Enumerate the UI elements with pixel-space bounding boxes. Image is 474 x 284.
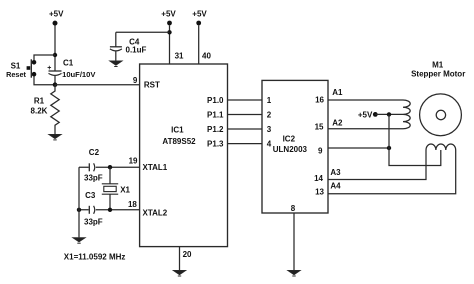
wire P1.0 (228, 99, 263, 101)
svg-text:14: 14 (314, 174, 323, 183)
svg-text:R1: R1 (34, 97, 45, 106)
svg-text:3: 3 (267, 125, 272, 134)
svg-text:13: 13 (315, 187, 324, 196)
IC1 AT89S52 microcontroller box (140, 64, 228, 247)
node XTAL2 junction crystal (108, 208, 112, 212)
resistor R1 (51, 85, 59, 134)
svg-text:9: 9 (133, 76, 138, 85)
wire A4 (328, 150, 456, 194)
svg-text:P1.2: P1.2 (207, 125, 224, 134)
inductor winding A1-A2 (403, 100, 410, 129)
svg-text:9: 9 (318, 147, 323, 156)
ground (IC1 pin 20) (173, 270, 186, 276)
node XTAL2 junction rail (77, 208, 81, 212)
svg-text:33pF: 33pF (84, 174, 103, 183)
wire IC1 pin 20 to ground (179, 247, 181, 270)
wire +5V to winding centre tap (375, 113, 403, 115)
svg-text:C3: C3 (85, 191, 96, 200)
svg-text:1: 1 (267, 96, 272, 105)
wire P1.2 (228, 128, 263, 130)
capacitor C2 (89, 163, 94, 171)
wire C4 to +5V rail (116, 31, 170, 33)
capacitor C3 (89, 206, 94, 214)
svg-text:8: 8 (291, 204, 296, 213)
capacitor C1 (49, 71, 62, 85)
svg-text:A3: A3 (330, 168, 341, 177)
svg-text:M1: M1 (432, 61, 444, 70)
svg-text:+5V: +5V (192, 9, 207, 18)
svg-text:A4: A4 (330, 181, 341, 190)
svg-text:+: + (47, 65, 51, 72)
node pin 9 junction (387, 146, 391, 150)
ground (crystal rail) (73, 238, 86, 244)
svg-text:+5V: +5V (49, 9, 64, 18)
svg-text:IC2: IC2 (283, 135, 296, 144)
svg-text:RST: RST (144, 81, 160, 90)
wire A3 (328, 150, 426, 180)
+5V supply pin 31 (167, 21, 172, 64)
svg-text:X1=11.0592 MHz: X1=11.0592 MHz (64, 253, 126, 262)
node C4 junction (167, 30, 171, 34)
crystal X1 (102, 167, 118, 210)
svg-text:C2: C2 (89, 148, 100, 157)
svg-text:AT89S52: AT89S52 (162, 137, 196, 146)
+5V supply pin 40 (196, 21, 201, 64)
svg-text:20: 20 (183, 250, 192, 259)
wire crystal ground rail (78, 167, 80, 237)
svg-text:2: 2 (267, 110, 272, 119)
svg-text:18: 18 (128, 200, 137, 209)
svg-text:X1: X1 (120, 185, 130, 194)
svg-text:Reset: Reset (6, 70, 26, 79)
wire P1.3 (228, 143, 263, 145)
svg-text:P1.3: P1.3 (207, 140, 224, 149)
svg-text:IC1: IC1 (171, 126, 184, 135)
svg-text:31: 31 (175, 52, 184, 61)
IC2 ULN2003 box (262, 80, 328, 213)
inductor winding A3-A4 (426, 144, 456, 150)
svg-text:16: 16 (315, 96, 324, 105)
wire XTAL1 (79, 166, 140, 168)
svg-text:8.2K: 8.2K (31, 107, 48, 116)
ground (below C4) (109, 61, 122, 67)
svg-text:0.1uF: 0.1uF (126, 46, 147, 55)
ground (below R1) (49, 134, 62, 140)
node reset top rail (34, 53, 57, 60)
wire XTAL2 (79, 209, 140, 211)
svg-text:ULN2003: ULN2003 (273, 145, 308, 154)
svg-text:A1: A1 (332, 88, 343, 97)
svg-text:A2: A2 (332, 118, 343, 127)
svg-text:40: 40 (202, 52, 211, 61)
svg-text:15: 15 (315, 122, 324, 131)
wire common routing to lower winding tap (389, 114, 441, 165)
svg-text:+5V: +5V (161, 9, 176, 18)
wire P1.1 (228, 114, 263, 116)
svg-text:Stepper Motor: Stepper Motor (411, 69, 465, 78)
ground (IC2 pin 8) (288, 270, 301, 276)
wire switch bottom (34, 77, 55, 85)
node motor +5V junction (387, 112, 391, 116)
svg-text:10uF/10V: 10uF/10V (62, 70, 96, 79)
wire A1 (328, 99, 403, 101)
capacitor C4 (110, 32, 122, 60)
motor M1 body (420, 94, 462, 136)
wire RST to IC1 pin 9 (55, 84, 140, 86)
svg-text:33pF: 33pF (84, 218, 103, 227)
svg-text:19: 19 (129, 156, 138, 165)
wire IC2 pin 8 to ground (293, 213, 295, 270)
svg-text:+5V: +5V (358, 110, 373, 119)
svg-text:4: 4 (267, 140, 272, 149)
svg-text:C1: C1 (63, 59, 74, 68)
switch S1 (27, 59, 37, 77)
node XTAL1 junction (108, 165, 112, 169)
svg-text:P1.1: P1.1 (207, 110, 224, 119)
node RST junction (53, 82, 58, 87)
+5V supply motor common (373, 112, 378, 117)
wire IC2 pin 9 common (328, 147, 389, 149)
+5V supply reset rail (53, 21, 58, 71)
svg-text:P1.0: P1.0 (207, 96, 224, 105)
svg-text:XTAL2: XTAL2 (143, 208, 168, 217)
svg-text:XTAL1: XTAL1 (143, 163, 168, 172)
wire A2 (328, 128, 403, 130)
